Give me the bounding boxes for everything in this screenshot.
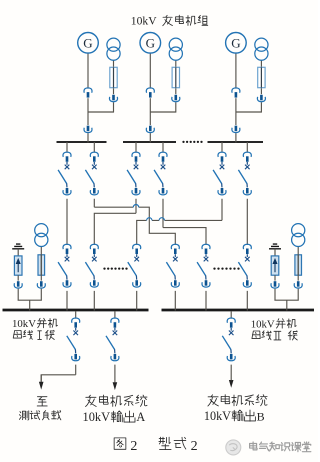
svg-text:10kV: 10kV <box>12 318 36 330</box>
svg-text:G: G <box>83 35 92 50</box>
svg-text:G: G <box>231 35 240 50</box>
svg-text:10kV: 10kV <box>83 410 111 424</box>
svg-text:10kV: 10kV <box>131 14 157 27</box>
svg-text:2: 2 <box>191 439 198 454</box>
svg-text:A: A <box>136 410 145 424</box>
svg-text:B: B <box>257 409 265 423</box>
svg-text:G: G <box>146 35 155 50</box>
svg-text:10kV: 10kV <box>251 319 275 331</box>
svg-text:2: 2 <box>130 439 137 454</box>
svg-text:10kV: 10kV <box>204 409 231 423</box>
